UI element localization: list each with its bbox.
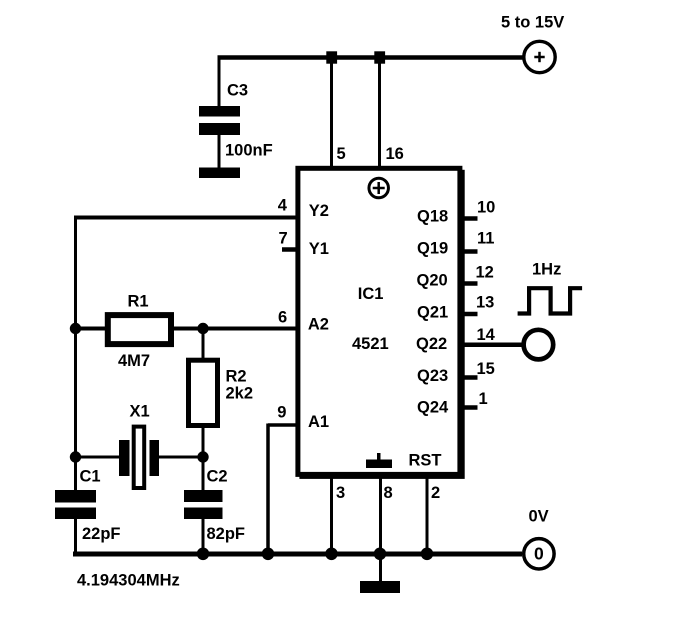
svg-text:R1: R1 [128,293,149,311]
terminal: 0V [524,539,554,569]
svg-text:Q20: Q20 [417,272,448,290]
svg-text:1: 1 [479,390,488,408]
junction: left rail / R1 [70,323,81,334]
wire: R2 bottom to crystal node [202,428,205,458]
svg-text:3: 3 [336,484,345,502]
svg-text:8: 8 [384,484,393,502]
pin stub Q20 (pin 12) [462,281,478,286]
wire: A1 net vertical to 0V rail [266,424,270,555]
svg-text:0V: 0V [529,507,549,525]
svg-text:Q21: Q21 [417,304,448,322]
wire: R1 left [74,327,106,331]
ground bar [360,581,400,593]
svg-text:14: 14 [477,326,496,344]
pin stub Q24 (pin 1) [462,405,478,410]
ground (C3) [199,168,240,179]
terminal: 1Hz output [524,330,554,360]
resistor R2 [189,360,218,425]
svg-text:X1: X1 [130,403,150,421]
wire: C2 bottom to 0V rail [202,519,205,555]
svg-text:22pF: 22pF [82,525,121,543]
pin stub Q23 (pin 15) [462,375,478,380]
svg-text:Q24: Q24 [417,399,449,417]
junction: pin5 / V+ rail [326,51,337,63]
capacitor C2 [184,490,223,519]
svg-text:IC1: IC1 [358,285,384,303]
wire: pin 5 drop from rail to IC [330,58,333,168]
svg-text:Q19: Q19 [417,240,448,258]
wire: ground drop below rail [379,554,382,582]
pin stub Q21 (pin 13) [462,312,478,317]
svg-text:10: 10 [477,199,495,217]
svg-text:0: 0 [534,544,544,564]
IC1 shadow [299,170,464,479]
junction: pin3 / 0V rail [325,548,338,561]
RST edge symbol [366,453,392,468]
svg-text:4: 4 [278,197,288,215]
wire: R1 right to pin 6 [173,327,297,331]
svg-text:4M7: 4M7 [118,352,150,370]
svg-text:Q23: Q23 [417,367,448,385]
pin stub Q19 (pin 11) [462,249,478,254]
junction: C2 / 0V rail [197,548,210,561]
capacitor C1 [55,490,96,519]
wire: left vertical rail [74,216,77,491]
svg-text:C2: C2 [207,468,228,486]
svg-text:Y1: Y1 [309,240,329,258]
svg-text:5: 5 [337,145,346,163]
junction: pin8 / 0V rail [374,548,387,561]
wire: V+ top rail [218,55,524,60]
op-amp IC1 body (4521 binary divider) [298,168,460,474]
svg-text:Y2: Y2 [309,202,329,220]
wire: pin 8 drop to 0V rail [379,476,382,554]
svg-text:2: 2 [431,484,440,502]
junction: R1 / R2 node [197,323,208,334]
junction: left rail / crystal [70,451,81,462]
svg-text:Q22: Q22 [416,335,447,353]
svg-text:7: 7 [279,230,288,248]
svg-text:82pF: 82pF [207,525,246,543]
wire: Q22 output (pin 14) [462,342,523,347]
wire: pin 3 drop to 0V rail [330,476,333,554]
square wave symbol [518,288,583,313]
capacitor C3 [199,106,240,168]
crystal X1 [119,427,159,488]
wire: C2 top [202,457,205,491]
wire: pin 2 drop to 0V rail [426,476,429,554]
svg-text:C3: C3 [227,82,248,100]
pin stub Q18 (pin 10) [462,216,478,221]
svg-text:R2: R2 [226,368,247,386]
wire: 0V bottom rail [73,552,522,557]
svg-text:C1: C1 [80,468,101,486]
svg-text:15: 15 [477,360,495,378]
svg-text:13: 13 [476,294,494,312]
wire: crystal left [74,456,120,459]
svg-text:RST: RST [409,452,442,470]
junction: crystal / R2 / C2 node [197,451,208,462]
junction: pin16 / V+ rail [374,51,385,63]
terminal: +V supply [524,41,555,72]
pin stub Y1 (pin 7) [282,247,297,252]
svg-text:2k2: 2k2 [226,385,254,403]
wire: A1 net horizontal to pin 9 [268,423,297,427]
svg-text:5 to 15V: 5 to 15V [501,14,564,32]
wire: crystal right [159,456,204,459]
power symbol inside IC1 (pin 16) [369,178,389,198]
junction: pin2 / 0V rail [421,548,434,561]
svg-text:1Hz: 1Hz [532,261,561,279]
wire: pin 16 drop from rail to IC [378,58,381,168]
resistor R1 [108,315,171,344]
svg-text:A2: A2 [308,316,329,334]
svg-text:16: 16 [386,145,404,163]
wire: R2 top [202,329,205,360]
junction: A1 / 0V rail [262,548,275,561]
svg-text:4.194304MHz: 4.194304MHz [77,572,180,590]
svg-text:4521: 4521 [352,335,389,353]
svg-text:11: 11 [477,230,494,248]
svg-text:Q18: Q18 [417,208,448,226]
wire: C1 bottom to 0V rail [74,519,77,555]
svg-text:A1: A1 [308,413,329,431]
wire: C3 top drop [218,58,221,108]
wire: Y2 net from left rail to pin 4 [76,216,298,220]
svg-text:12: 12 [476,264,494,282]
svg-text:100nF: 100nF [225,142,273,160]
svg-text:9: 9 [277,404,286,422]
svg-text:6: 6 [278,309,287,327]
